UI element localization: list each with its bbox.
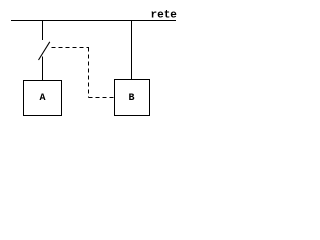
wire: switch bottom contact to box A	[42, 57, 44, 81]
box A (device A)	[24, 81, 62, 116]
wire: right drop from rail to box B	[131, 20, 133, 80]
dashed control link: horizontal into box B	[89, 97, 115, 99]
dashed control link: vertical segment	[88, 48, 90, 98]
wire: left drop from rail to switch top contact	[42, 20, 44, 40]
wire: mains supply rail (net "rete")	[11, 20, 176, 22]
svg-text:B: B	[129, 93, 135, 104]
box B (device B)	[115, 80, 150, 116]
switch S1 (open blade)	[39, 42, 50, 60]
svg-text:rete: rete	[151, 10, 178, 22]
svg-text:A: A	[40, 93, 46, 104]
dashed control link: horizontal from switch	[52, 47, 90, 49]
